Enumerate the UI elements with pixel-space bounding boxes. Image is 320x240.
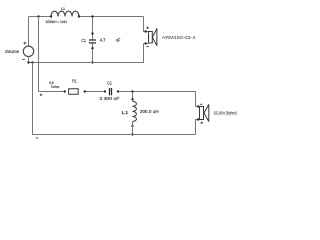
wire right vertical 2 upper: [195, 92, 197, 107]
speaker SC10N (8ohm): [196, 104, 238, 124]
speaker ARM150-03-4: [144, 27, 196, 47]
wire capacitor column lower: [92, 43, 94, 62]
capacitor C1 shunt 4.7uF: [81, 15, 120, 63]
svg-text:3 300 uF: 3 300 uF: [99, 96, 120, 101]
svg-text:C1: C1: [107, 81, 112, 86]
node coil junction on branch rail: [131, 90, 133, 92]
svg-text:ARM150-03-4: ARM150-03-4: [162, 35, 196, 40]
node tap junction on top rail: [37, 15, 39, 17]
wire right vertical upper (to speaker +): [143, 17, 145, 32]
wire source bottom column: [28, 57, 30, 63]
wire top rail: [29, 16, 144, 18]
node bottom minus sign: [36, 137, 38, 139]
node drop junction: [31, 61, 33, 63]
inductor L1 shunt 200uH: [122, 98, 159, 127]
svg-text:200.0 uH: 200.0 uH: [140, 109, 159, 114]
svg-text:SC10N (8ohm): SC10N (8ohm): [214, 110, 237, 115]
svg-text:Ochm: Ochm: [51, 85, 59, 89]
node branch plus sign: [40, 94, 42, 96]
svg-text:L1: L1: [122, 110, 130, 115]
wire coil column lower: [132, 122, 134, 135]
wire capacitor column upper: [92, 17, 94, 40]
resistor R1 6,8 Ochm: [49, 78, 86, 94]
wire right vertical 2 lower: [195, 120, 197, 135]
wire coil column upper: [132, 92, 134, 102]
svg-text:L1: L1: [61, 6, 66, 11]
wire branch rail: [39, 91, 196, 93]
capacitor C1 series 3300uF: [99, 81, 120, 102]
wire return rail: [29, 62, 144, 64]
wire feed column (top rail to branch): [38, 17, 40, 92]
svg-text:1000uH = 1mH: 1000uH = 1mH: [46, 20, 68, 24]
svg-text:C1: C1: [81, 38, 86, 43]
svg-text:R1: R1: [72, 78, 77, 83]
wire source top column: [28, 17, 30, 47]
svg-text:Source: Source: [5, 49, 20, 54]
node source minus junction: [27, 61, 29, 63]
node coil bottom junction: [131, 133, 133, 135]
wire drop column to bottom rail: [32, 63, 34, 135]
svg-text:uF: uF: [116, 38, 121, 43]
inductor L1 (top, 1000uH): [46, 6, 81, 24]
source V1: [5, 42, 34, 60]
wire bottom rail: [33, 134, 196, 136]
wire right vertical lower (speaker - return): [143, 44, 145, 63]
svg-text:4.7: 4.7: [100, 38, 106, 43]
